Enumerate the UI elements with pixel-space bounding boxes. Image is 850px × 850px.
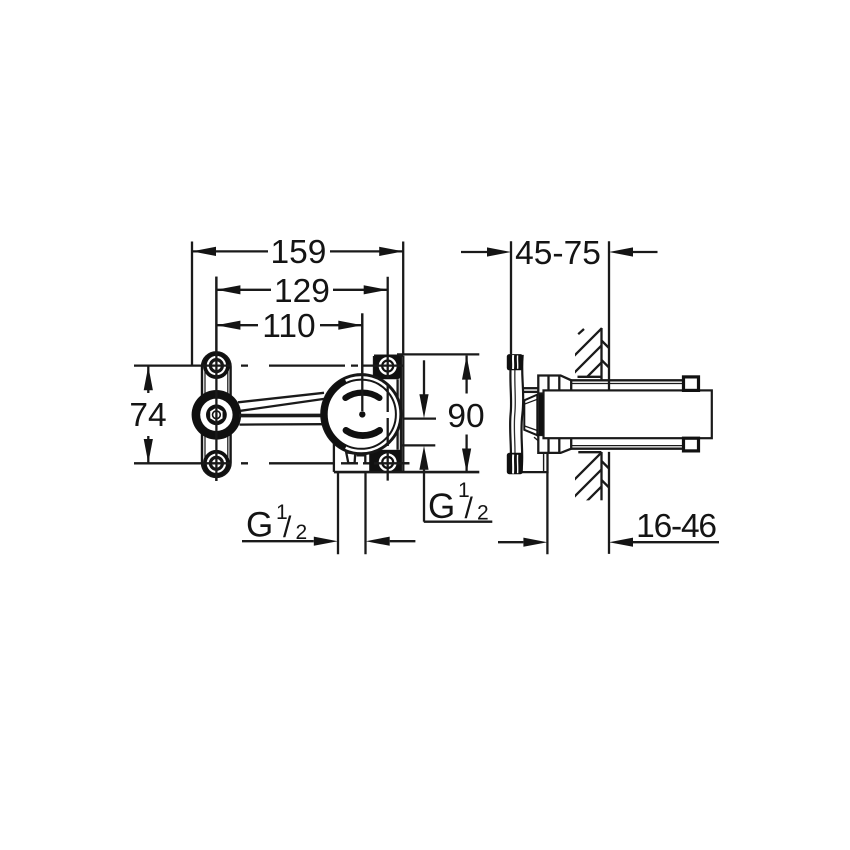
svg-text:2: 2 — [296, 521, 308, 544]
svg-text:2: 2 — [477, 502, 489, 525]
svg-text:74: 74 — [129, 397, 166, 434]
svg-text:/: / — [465, 492, 474, 525]
svg-text:45-75: 45-75 — [515, 235, 601, 272]
svg-text:159: 159 — [271, 234, 327, 271]
svg-text:16-46: 16-46 — [636, 508, 716, 545]
svg-text:/: / — [283, 511, 292, 544]
svg-text:90: 90 — [447, 398, 484, 435]
svg-text:110: 110 — [262, 308, 315, 345]
svg-text:G: G — [246, 506, 273, 545]
svg-text:129: 129 — [274, 273, 330, 310]
svg-text:G: G — [428, 487, 455, 526]
